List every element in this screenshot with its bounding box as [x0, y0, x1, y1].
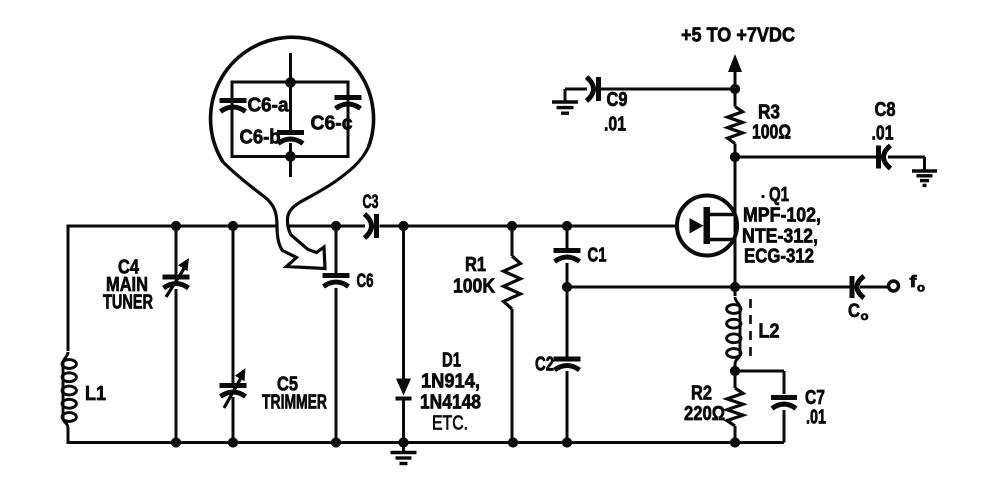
- svg-text:220Ω: 220Ω: [684, 403, 725, 425]
- svg-text:R1: R1: [465, 254, 486, 276]
- svg-text:100Ω: 100Ω: [752, 122, 791, 144]
- svg-text:L1: L1: [85, 383, 106, 405]
- svg-text:1N4148: 1N4148: [420, 392, 481, 414]
- svg-text:C1: C1: [588, 245, 607, 267]
- svg-text:ETC.: ETC.: [432, 413, 468, 435]
- svg-text:100K: 100K: [453, 276, 495, 298]
- svg-text:o: o: [861, 309, 869, 323]
- svg-text:Q1: Q1: [769, 184, 789, 206]
- svg-text:R2: R2: [691, 383, 712, 405]
- svg-text:C9: C9: [607, 89, 628, 111]
- svg-text:D1: D1: [442, 350, 461, 372]
- svg-text:C6-c: C6-c: [311, 113, 353, 135]
- svg-text:C6-a: C6-a: [248, 95, 290, 117]
- svg-text:MPF-102,: MPF-102,: [743, 205, 821, 227]
- svg-text:C6-b: C6-b: [240, 127, 281, 149]
- svg-text:C3: C3: [363, 192, 379, 213]
- svg-text:f: f: [910, 272, 917, 291]
- svg-text:1N914,: 1N914,: [421, 371, 480, 393]
- svg-text:R3: R3: [758, 102, 780, 124]
- svg-text:.01: .01: [604, 114, 626, 136]
- svg-text:C8: C8: [875, 99, 896, 121]
- svg-text:.01: .01: [872, 123, 894, 145]
- svg-text:ECG-312: ECG-312: [744, 246, 814, 268]
- svg-text:L2: L2: [759, 321, 780, 343]
- svg-text:C6: C6: [357, 271, 374, 292]
- svg-text:+5 TO +7VDC: +5 TO +7VDC: [681, 25, 795, 47]
- svg-text:o: o: [917, 281, 925, 295]
- svg-text:NTE-312,: NTE-312,: [742, 226, 818, 248]
- svg-text:TUNER: TUNER: [103, 292, 153, 314]
- svg-text:C2: C2: [535, 354, 554, 376]
- svg-text:TRIMMER: TRIMMER: [262, 392, 327, 414]
- svg-text:.01: .01: [806, 407, 826, 429]
- svg-text:C: C: [848, 301, 860, 322]
